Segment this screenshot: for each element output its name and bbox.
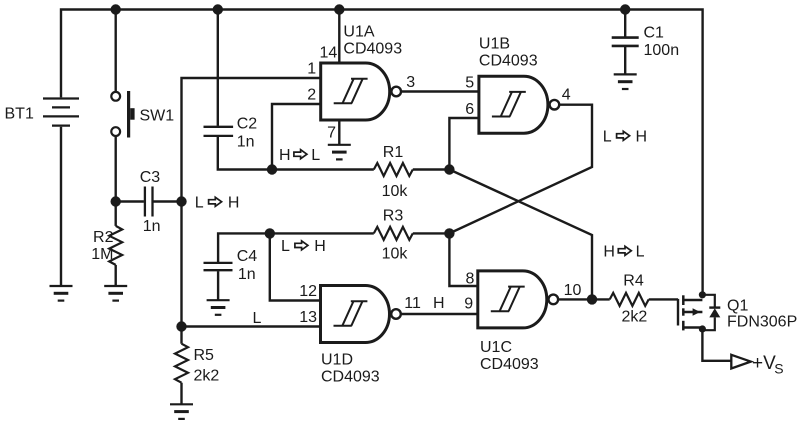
svg-text:BT1: BT1 — [5, 106, 34, 123]
wire C3 right to vertical bus — [154, 200, 182, 202]
wire Q1 source to +VS arrow — [702, 329, 731, 361]
gate bar — [677, 299, 679, 326]
wire U1B pin 6 branch — [449, 118, 479, 170]
svg-text:SW1: SW1 — [140, 108, 175, 125]
resistor R1 — [374, 163, 413, 176]
resistor R5 — [175, 344, 188, 383]
svg-text:CD4093: CD4093 — [480, 356, 539, 373]
svg-text:R3: R3 — [383, 208, 404, 225]
svg-text:C4: C4 — [237, 248, 258, 265]
wire U1C output to R4 — [558, 298, 610, 300]
wire node to C3 left — [116, 200, 144, 202]
ground C4 — [207, 300, 230, 315]
resistor R4 — [610, 293, 649, 306]
+VS output arrow — [731, 355, 751, 369]
svg-text:4: 4 — [562, 87, 571, 104]
node C2-pin2-R1 — [267, 164, 277, 174]
svg-text:C2: C2 — [237, 116, 258, 133]
svg-text:10: 10 — [564, 282, 582, 299]
node C4-R3-pin12 — [265, 228, 275, 238]
body diode branch — [702, 295, 714, 308]
body terminal with arrow — [683, 311, 702, 313]
node R1-pin6-cross — [444, 164, 454, 174]
op-amp U1D nand gate — [321, 286, 401, 343]
resistor R3 — [374, 227, 413, 240]
svg-text:R1: R1 — [383, 144, 404, 161]
channel segments — [682, 295, 685, 305]
svg-text:7: 7 — [327, 125, 336, 142]
svg-text:R5: R5 — [194, 347, 215, 364]
svg-text:H: H — [636, 128, 648, 145]
wire R4 to Q1 gate — [649, 298, 678, 300]
svg-text:1M: 1M — [91, 246, 113, 263]
switch SW1 — [111, 91, 134, 138]
svg-text:R2: R2 — [93, 229, 114, 246]
capacitor C4 — [204, 263, 233, 270]
wire R3 node down to U1C pin 8 — [449, 233, 477, 286]
node C3-bus — [176, 196, 186, 206]
node Q1 drain junction — [699, 291, 706, 298]
svg-text:CD4093: CD4093 — [321, 368, 380, 385]
svg-text:R4: R4 — [623, 273, 644, 290]
svg-text:1n: 1n — [238, 266, 256, 283]
svg-text:10k: 10k — [382, 183, 409, 200]
svg-text:14: 14 — [320, 44, 338, 61]
svg-text:H: H — [228, 194, 240, 211]
wire R2 bottom to ground — [114, 265, 116, 286]
op-amp U1B nand gate — [479, 76, 559, 133]
transistor Q1 P-MOSFET — [678, 295, 720, 331]
node rail-C1 — [620, 4, 630, 14]
svg-text:CD4093: CD4093 — [343, 41, 402, 58]
node rail-C2 — [213, 4, 223, 14]
svg-text:9: 9 — [464, 295, 473, 312]
svg-text:2: 2 — [307, 87, 316, 104]
op-amp U1C nand gate — [478, 271, 558, 328]
node pin10-R4 — [587, 294, 597, 304]
wire R5 top — [180, 327, 182, 344]
svg-text:100n: 100n — [644, 42, 680, 59]
ground C1 — [614, 74, 637, 89]
svg-text:13: 13 — [299, 309, 317, 326]
wire SW1 top drop — [114, 10, 116, 93]
ground R5 — [170, 404, 193, 419]
svg-text:U1B: U1B — [479, 35, 510, 52]
wire pin13 node to U1D pin 13 — [182, 325, 321, 327]
wire top supply rail — [61, 10, 703, 295]
op-amp U1A nand gate — [321, 63, 401, 120]
wire R3 right segment — [413, 232, 450, 234]
wire U1A output to U1B pin 5 — [401, 90, 479, 92]
svg-text:5: 5 — [465, 74, 474, 91]
capacitor C3 — [145, 187, 153, 217]
node R3-pin8-cross — [444, 228, 454, 238]
wire R1 node cross to U1C output node — [449, 170, 592, 300]
wire C4 branch to R3 — [218, 233, 374, 262]
svg-text:L: L — [603, 128, 612, 145]
svg-text:C1: C1 — [644, 24, 665, 41]
wire U1A pin 7 to ground — [338, 120, 340, 145]
wire battery bottom to ground — [60, 127, 62, 286]
svg-text:1: 1 — [307, 61, 316, 78]
battery BT1 — [43, 99, 79, 126]
drain terminal — [683, 299, 702, 301]
svg-text:11: 11 — [404, 295, 421, 312]
source terminal — [683, 326, 702, 328]
svg-text:8: 8 — [465, 271, 474, 288]
svg-text:FDN306P: FDN306P — [727, 313, 797, 330]
wire U1D pin 12 branch — [270, 233, 321, 300]
wire C4 bottom to ground — [217, 271, 219, 300]
svg-text:CD4093: CD4093 — [479, 53, 538, 70]
svg-text:L: L — [281, 238, 290, 255]
svg-text:Q1: Q1 — [727, 297, 748, 314]
wire C2 bottom to R1 node — [218, 137, 272, 170]
svg-text:L: L — [195, 194, 204, 211]
wire R1 left segment — [272, 168, 374, 170]
svg-text:U1A: U1A — [343, 23, 374, 40]
resistor R2 — [109, 226, 122, 265]
node rail-pin14 — [334, 4, 344, 14]
svg-text:2k2: 2k2 — [194, 367, 220, 384]
svg-text:6: 6 — [465, 101, 474, 118]
wire vertical bus pin1 to pin13 node — [182, 78, 321, 327]
svg-text:L: L — [253, 310, 262, 327]
svg-text:1n: 1n — [143, 218, 161, 235]
wire C1 bottom to ground — [624, 47, 626, 74]
svg-text:H: H — [433, 295, 445, 312]
wire U1D output to U1C pin 9 — [401, 313, 478, 315]
node rail-SW1 — [111, 4, 121, 14]
svg-text:H: H — [279, 147, 291, 164]
wire U1B output pin 4 cross to R3 node — [449, 105, 592, 234]
node bus-pin13-R5 — [176, 321, 186, 331]
wire R1 right segment — [413, 168, 450, 170]
wire C2 top drop — [217, 10, 219, 126]
svg-text:S: S — [774, 361, 783, 377]
svg-text:1n: 1n — [237, 133, 255, 150]
svg-text:3: 3 — [406, 74, 415, 91]
wire R5 bottom to ground — [180, 383, 182, 405]
ground battery — [50, 286, 73, 301]
wire SW1 bottom to node L-H — [114, 136, 116, 202]
svg-text:10k: 10k — [382, 245, 409, 262]
wire U1A pin 14 drop — [338, 10, 340, 64]
svg-text:U1D: U1D — [321, 352, 353, 369]
svg-text:2k2: 2k2 — [622, 309, 648, 326]
svg-text:12: 12 — [299, 283, 317, 300]
capacitor C2 — [204, 127, 234, 136]
wire C1 top drop — [624, 10, 626, 37]
ground U1A pin 7 — [328, 145, 351, 160]
svg-text:H: H — [603, 243, 615, 260]
capacitor C1 — [612, 38, 639, 46]
ground R2 — [104, 286, 127, 301]
svg-text:U1C: U1C — [480, 339, 512, 356]
svg-text:C3: C3 — [140, 169, 161, 186]
svg-text:L: L — [311, 147, 320, 164]
wire R2 top — [114, 202, 116, 226]
svg-text:H: H — [314, 238, 326, 255]
svg-text:+V: +V — [752, 353, 776, 374]
node Q1 source junction — [699, 325, 706, 332]
node SW1-C3-R2 — [111, 196, 121, 206]
svg-text:L: L — [636, 243, 645, 260]
wire U1A pin 2 branch — [272, 104, 321, 170]
